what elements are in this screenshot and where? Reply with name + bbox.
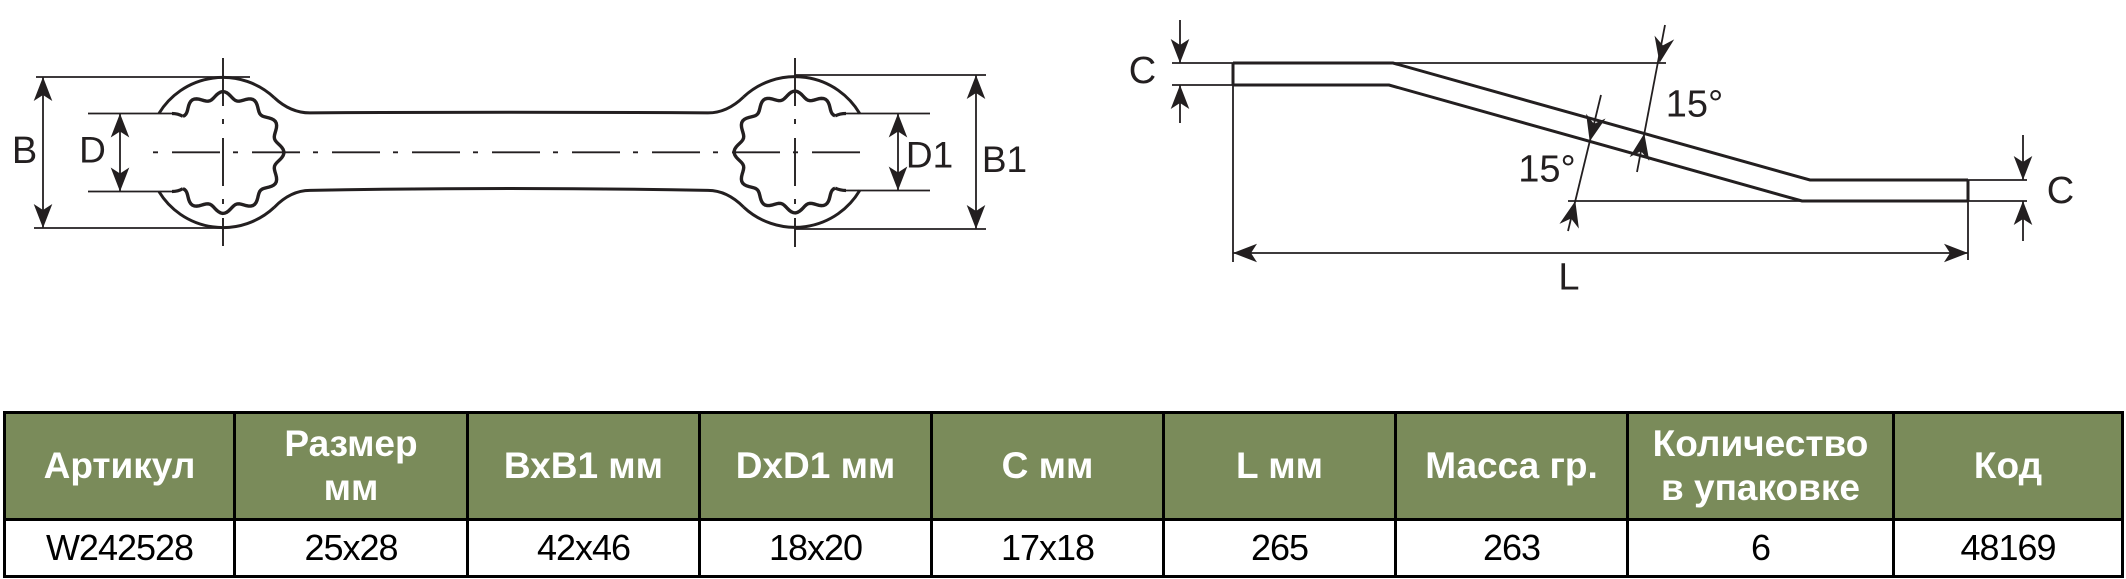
node 15deg upper dimension line (1637, 25, 1665, 172)
node angle reference line top (1393, 62, 1666, 64)
node B dimension line (42, 77, 44, 228)
node L dimension line (1233, 252, 1968, 254)
ring right 12-point profile (734, 91, 835, 213)
svg-text:B1: B1 (982, 139, 1027, 180)
svg-text:15°: 15° (1518, 149, 1575, 191)
svg-text:D: D (79, 130, 106, 171)
node D1 dimension line (897, 114, 899, 191)
node D1 extension lines (842, 114, 930, 191)
ring head right outer circle (744, 77, 860, 228)
node C right dimension arrows (2022, 135, 2024, 241)
svg-text:B: B (12, 130, 37, 172)
node horizontal-centerline (153, 151, 871, 153)
node C left extension lines (1172, 63, 1233, 85)
svg-text:C: C (1129, 50, 1156, 92)
svg-text:15°: 15° (1666, 84, 1723, 126)
node C right extension lines (1968, 180, 2027, 201)
ring head left outer circle (159, 77, 274, 227)
node B1 extension lines (795, 75, 986, 229)
node right-head-vertical-centerline (794, 58, 796, 247)
svg-text:L: L (1558, 257, 1579, 299)
node D dimension line (119, 114, 121, 192)
node angle reference line bottom (1568, 200, 1802, 202)
node L extension lines (1233, 85, 1968, 262)
node B extension lines (34, 77, 250, 228)
svg-text:D1: D1 (906, 135, 953, 176)
node D extension lines (88, 114, 176, 192)
node C left dimension arrows (1179, 20, 1181, 123)
wrench handle (274, 97, 743, 207)
node B1 dimension line (975, 75, 977, 229)
node left-head-vertical-centerline (222, 58, 224, 246)
node 15deg lower dimension line (1568, 95, 1601, 231)
ring left 12-point profile (183, 92, 284, 214)
svg-text:C: C (2047, 170, 2074, 212)
side view wrench outline (1233, 63, 1968, 201)
